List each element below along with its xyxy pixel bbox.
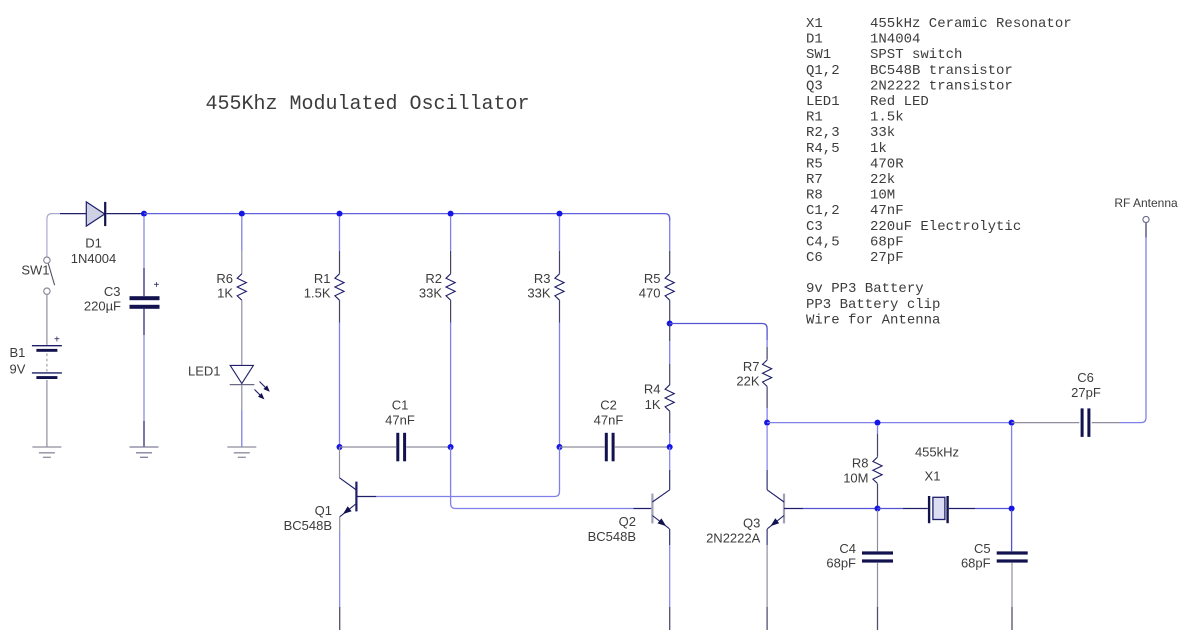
wire C6 to antenna xyxy=(1092,422,1120,424)
svg-text:Wire for Antenna: Wire for Antenna xyxy=(806,312,940,328)
wire C5 down xyxy=(1011,563,1013,607)
wire rail to R2 xyxy=(450,216,452,251)
svg-text:33K: 33K xyxy=(419,286,442,301)
wire rail to C6 xyxy=(1012,422,1080,424)
svg-text:BC548B transistor: BC548B transistor xyxy=(870,63,1013,79)
node R5 R4 junction xyxy=(667,321,673,327)
wire Q1 base xyxy=(376,447,559,497)
svg-text:R7: R7 xyxy=(743,359,760,374)
svg-text:R2,3: R2,3 xyxy=(806,125,840,141)
wire C5 node vertical xyxy=(1011,425,1013,506)
svg-text:22k: 22k xyxy=(870,172,895,188)
svg-text:+: + xyxy=(154,280,160,291)
svg-text:C5: C5 xyxy=(974,541,991,556)
transistor Q2 xyxy=(669,447,671,470)
capacitor C5 xyxy=(997,551,1028,554)
svg-text:220uF Electrolytic: 220uF Electrolytic xyxy=(870,219,1021,235)
svg-text:R7: R7 xyxy=(806,172,823,188)
svg-text:Q3: Q3 xyxy=(806,78,823,94)
svg-text:R8: R8 xyxy=(852,456,869,471)
resistor R7 xyxy=(763,360,772,386)
wire R3 to node xyxy=(559,300,561,322)
svg-text:RF Antenna: RF Antenna xyxy=(1114,196,1178,210)
svg-text:R2: R2 xyxy=(425,271,442,286)
wire node to C2 xyxy=(560,446,605,448)
svg-text:C6: C6 xyxy=(1077,370,1094,385)
svg-text:BC548B: BC548B xyxy=(588,529,636,544)
svg-text:C4,5: C4,5 xyxy=(806,234,840,250)
svg-text:C2: C2 xyxy=(600,398,617,413)
node C2 left xyxy=(557,444,563,450)
svg-text:+: + xyxy=(54,335,60,346)
resistor R5 xyxy=(665,274,674,300)
svg-text:C1,2: C1,2 xyxy=(806,203,840,219)
svg-text:R8: R8 xyxy=(806,188,823,204)
battery B1 xyxy=(32,345,62,347)
wire battery top corner xyxy=(47,214,60,257)
wire node to C5 xyxy=(1011,510,1013,551)
wire C3 to ground xyxy=(143,309,145,335)
svg-text:Q3: Q3 xyxy=(743,516,760,531)
wire R5 node to R7 xyxy=(670,324,767,341)
svg-text:X1: X1 xyxy=(806,16,823,32)
capacitor C1 xyxy=(396,433,399,462)
node V+ junction at C3 xyxy=(141,211,147,217)
svg-text:455Khz Modulated Oscillator: 455Khz Modulated Oscillator xyxy=(206,93,530,116)
diode D1 xyxy=(86,202,104,226)
wire R7 to node xyxy=(766,386,768,408)
wire R2 to node xyxy=(450,300,452,322)
svg-text:R3: R3 xyxy=(534,271,551,286)
wire rail to R3 xyxy=(559,216,561,251)
wire X1 to node xyxy=(949,508,975,510)
wire C1 to node xyxy=(406,446,450,448)
resistor R1 xyxy=(335,274,344,300)
wire diode cathode to node xyxy=(106,213,144,215)
wire rail corner to R5 xyxy=(669,221,671,251)
resistor R4 xyxy=(665,385,674,411)
svg-text:C4: C4 xyxy=(839,541,856,556)
node C2 right xyxy=(667,444,673,450)
wire Q1 emitter down xyxy=(339,517,341,532)
svg-text:47nF: 47nF xyxy=(385,413,415,428)
svg-text:1.5K: 1.5K xyxy=(304,286,331,301)
wire LED to ground xyxy=(241,385,243,410)
svg-text:Q1: Q1 xyxy=(315,503,332,518)
wire C2 to node xyxy=(615,446,670,448)
svg-text:1K: 1K xyxy=(217,286,233,301)
svg-text:27pF: 27pF xyxy=(870,250,904,266)
svg-text:R5: R5 xyxy=(806,156,823,172)
svg-text:X1: X1 xyxy=(925,469,941,484)
wire node to C4 xyxy=(877,510,879,551)
wire Q3 base to node xyxy=(784,508,803,510)
svg-text:220µF: 220µF xyxy=(84,299,121,314)
ground LED xyxy=(227,446,256,448)
wire SW1 to battery xyxy=(46,295,48,345)
wire node to R4 xyxy=(669,324,671,342)
svg-text:C6: C6 xyxy=(806,250,823,266)
svg-text:2N2222A: 2N2222A xyxy=(706,531,761,546)
svg-text:33k: 33k xyxy=(870,125,895,141)
resistor R3 xyxy=(555,274,564,300)
node rail at R1 xyxy=(337,211,343,217)
capacitor C4 xyxy=(862,551,893,554)
node R7 bottom xyxy=(764,420,770,426)
wire node to X1 xyxy=(878,508,904,510)
ground battery xyxy=(32,446,61,448)
svg-text:10M: 10M xyxy=(843,471,868,486)
svg-text:22K: 22K xyxy=(736,374,759,389)
capacitor C2 xyxy=(605,433,608,462)
ceramic resonator X1 xyxy=(928,496,930,523)
svg-text:R1: R1 xyxy=(806,110,823,126)
node X1 right C5 xyxy=(1009,506,1015,512)
svg-text:9v PP3 Battery: 9v PP3 Battery xyxy=(806,281,924,297)
svg-text:D1: D1 xyxy=(806,32,823,48)
svg-text:LED1: LED1 xyxy=(806,94,840,110)
svg-text:R4,5: R4,5 xyxy=(806,141,840,157)
svg-text:470: 470 xyxy=(639,286,661,301)
svg-text:2N2222 transistor: 2N2222 transistor xyxy=(870,78,1013,94)
svg-text:33K: 33K xyxy=(527,286,550,301)
svg-text:68pF: 68pF xyxy=(961,556,991,571)
svg-text:455kHz: 455kHz xyxy=(915,444,959,459)
ground C3 xyxy=(130,446,159,448)
svg-text:10M: 10M xyxy=(870,188,895,204)
svg-text:C3: C3 xyxy=(806,219,823,235)
resistor R8 xyxy=(873,457,882,483)
wire rail to R6 xyxy=(241,216,243,251)
top supply rail wire xyxy=(144,214,670,221)
svg-text:SW1: SW1 xyxy=(21,263,49,278)
svg-text:R1: R1 xyxy=(314,271,331,286)
svg-text:1.5k: 1.5k xyxy=(870,110,904,126)
svg-text:BC548B: BC548B xyxy=(284,518,332,533)
node rail at R2 xyxy=(448,211,454,217)
svg-text:B1: B1 xyxy=(10,345,26,360)
node rail at R6 xyxy=(239,211,245,217)
wire R8 to base node xyxy=(877,484,879,509)
wire R4 to node xyxy=(669,411,671,433)
resistor R2 xyxy=(446,274,455,300)
resistor R6 xyxy=(237,274,246,300)
node rail at R3 xyxy=(557,211,563,217)
svg-text:R4: R4 xyxy=(644,382,661,397)
LED1 xyxy=(230,365,253,383)
svg-text:D1: D1 xyxy=(85,236,102,251)
svg-text:SW1: SW1 xyxy=(806,47,831,63)
svg-text:1k: 1k xyxy=(870,141,887,157)
wire battery to ground xyxy=(46,380,48,447)
svg-text:27pF: 27pF xyxy=(1071,385,1101,400)
wire node to C3 xyxy=(143,216,145,268)
svg-text:R5: R5 xyxy=(644,271,661,286)
wire rail to R1 xyxy=(339,216,341,251)
node Q3 base R8 C4 xyxy=(875,506,881,512)
node C1 right xyxy=(448,444,454,450)
wire to diode anode xyxy=(60,213,86,215)
wire Q3 emitter down xyxy=(766,529,768,545)
capacitor C6 xyxy=(1081,408,1084,437)
svg-text:47nF: 47nF xyxy=(594,413,624,428)
svg-text:Q1,2: Q1,2 xyxy=(806,63,840,79)
wire R5 to node xyxy=(669,300,671,323)
svg-text:68pF: 68pF xyxy=(870,234,904,250)
svg-text:Red LED: Red LED xyxy=(870,94,929,110)
svg-text:1N4004: 1N4004 xyxy=(71,251,117,266)
wire rail to R8 xyxy=(877,425,879,434)
wire C4 down xyxy=(877,563,879,607)
svg-text:9V: 9V xyxy=(10,362,26,377)
wire R1 to node xyxy=(339,300,341,322)
svg-text:68pF: 68pF xyxy=(826,556,856,571)
transistor Q1 xyxy=(339,447,341,478)
svg-text:PP3 Battery clip: PP3 Battery clip xyxy=(806,297,940,313)
wire Q2 emitter down xyxy=(669,529,671,545)
LED light ray arrows xyxy=(260,382,267,389)
wire Q2 base xyxy=(451,447,634,509)
svg-text:R6: R6 xyxy=(216,271,233,286)
svg-text:47nF: 47nF xyxy=(870,203,904,219)
svg-text:LED1: LED1 xyxy=(188,364,221,379)
antenna terminal xyxy=(1143,216,1149,222)
transistor Q3 xyxy=(766,425,768,470)
node C1 left xyxy=(337,444,343,450)
parts list xyxy=(806,16,1072,328)
svg-text:SPST switch: SPST switch xyxy=(870,47,962,63)
svg-text:Q2: Q2 xyxy=(619,514,636,529)
wire node to C1 xyxy=(340,446,397,448)
svg-text:455kHz Ceramic Resonator: 455kHz Ceramic Resonator xyxy=(870,16,1072,32)
svg-text:1N4004: 1N4004 xyxy=(870,32,920,48)
capacitor C3 xyxy=(130,296,160,300)
node rail at C5 xyxy=(1009,420,1015,426)
switch SW1 xyxy=(48,263,54,285)
svg-text:1K: 1K xyxy=(645,397,661,412)
node rail at R8 xyxy=(875,420,881,426)
wire R6 to LED xyxy=(241,300,243,365)
oscillator rail wire xyxy=(767,422,1012,424)
svg-text:470R: 470R xyxy=(870,156,904,172)
svg-text:C1: C1 xyxy=(392,398,409,413)
svg-text:C3: C3 xyxy=(104,284,121,299)
